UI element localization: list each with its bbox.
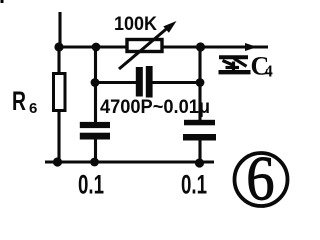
svg-text:6: 6 <box>29 100 37 117</box>
svg-text:R: R <box>12 86 26 116</box>
svg-text:100K: 100K <box>114 14 157 35</box>
svg-text:0.1: 0.1 <box>78 170 104 200</box>
svg-text:4700P~0.01μ: 4700P~0.01μ <box>100 97 210 118</box>
svg-text:0.1: 0.1 <box>181 170 207 200</box>
svg-text:6: 6 <box>246 144 274 213</box>
svg-text:4: 4 <box>265 62 273 81</box>
